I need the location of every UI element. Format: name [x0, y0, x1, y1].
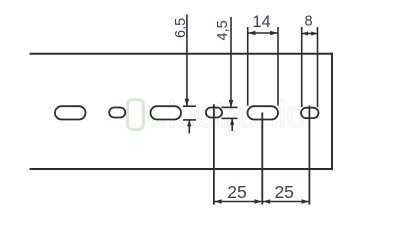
hole B (8x4.5): [206, 108, 222, 118]
centerline hole B: [213, 104, 215, 204]
centerline hole C: [308, 106, 310, 205]
rail bottom edge: [30, 168, 334, 170]
dimension 4,5 line: [222, 17, 238, 131]
centerline slot 3: [261, 113, 263, 205]
svg-text:25: 25: [227, 182, 246, 202]
rail right edge: [331, 53, 333, 170]
svg-text:14: 14: [252, 13, 270, 31]
slot 1 (14x6.5): [55, 106, 86, 119]
svg-text:6,5: 6,5: [173, 18, 189, 38]
watermark logo S: [128, 100, 144, 130]
dimension 8 extension lines: [302, 27, 318, 107]
dimension 6,5 line: [183, 15, 196, 134]
dimension 14 extension lines: [248, 27, 278, 106]
slot 2 (14x6.5): [151, 106, 182, 119]
svg-text:25: 25: [274, 182, 293, 202]
svg-text:4,5: 4,5: [215, 20, 231, 40]
dimension 14 line with arrows: [248, 31, 278, 36]
dimension 25/25 line: [214, 199, 310, 204]
dimension 8 line with arrows: [302, 31, 318, 35]
hole A (8x4.5): [109, 108, 125, 118]
hole C (8x4.5) dimensioned 8: [301, 108, 319, 118]
svg-text:8: 8: [304, 14, 312, 30]
slot 3 (14x6.5) dimensioned 14: [248, 106, 279, 119]
rail top edge: [30, 53, 334, 55]
